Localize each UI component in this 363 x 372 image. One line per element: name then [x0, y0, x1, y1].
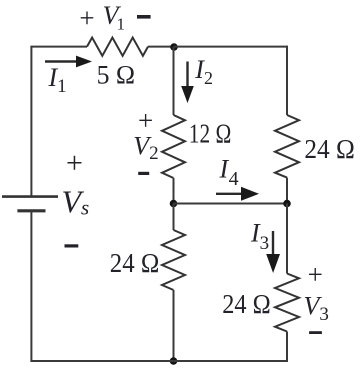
node C (middle-right junction) [283, 200, 291, 208]
wire top middle (resistor 5Ω to node A) [148, 46, 174, 48]
label + V3 - beside resistor 24Ω lower right [304, 260, 329, 335]
wire bottom horizontal [30, 360, 288, 362]
svg-text:V3: V3 [304, 292, 329, 326]
label 24 Ω value (lower right) [222, 289, 271, 319]
resistor 5Ω [87, 38, 148, 56]
svg-text:V1: V1 [103, 1, 125, 33]
label 24 Ω value (right upper) [304, 134, 355, 164]
label 12 Ω value [189, 119, 232, 149]
wire top left (corner to resistor 5Ω) [30, 46, 87, 48]
svg-text:I2: I2 [194, 55, 213, 88]
wire right vertical lowest (resistor to bottom-right corner) [286, 332, 288, 363]
svg-text:I3: I3 [250, 218, 269, 254]
wire right vertical (node C to resistor 24Ω lower right) [286, 204, 288, 274]
label 24 Ω value (middle lower) [110, 248, 160, 278]
wire middle vertical (node B to resistor 24Ω middle) [173, 204, 175, 231]
battery source Vs [2, 197, 58, 211]
wire top right (node A to top-right corner) [174, 46, 287, 48]
svg-text:12 Ω: 12 Ω [189, 119, 232, 149]
label I4 [219, 154, 239, 190]
svg-text:24 Ω: 24 Ω [304, 134, 355, 164]
svg-text:5 Ω: 5 Ω [97, 60, 136, 90]
wire middle vertical upper (node A to resistor 12Ω) [173, 47, 175, 115]
wire middle vertical lower (resistor 24Ω to node D) [173, 290, 175, 361]
svg-text:24 Ω: 24 Ω [110, 248, 160, 278]
svg-text:24 Ω: 24 Ω [222, 289, 271, 319]
current arrow I2 [181, 62, 194, 104]
resistor 24Ω (right upper) [275, 115, 299, 178]
svg-text:I1: I1 [48, 63, 67, 97]
node D (bottom junction) [170, 357, 178, 365]
resistor 12Ω [162, 115, 185, 178]
svg-text:+: + [79, 3, 94, 33]
node A (top junction) [170, 43, 178, 51]
label + V2 - beside resistor 12Ω [133, 105, 158, 175]
wire middle vertical (resistor 12Ω to node B) [173, 178, 175, 204]
wire left vertical (bottom segment, Vs - terminal to bottom-left corner) [30, 211, 32, 361]
wire right vertical middle (resistor 24Ω to node C) [286, 178, 288, 204]
label 5 Ω value [97, 60, 136, 90]
current arrow I3 [266, 231, 280, 273]
svg-text:+: + [308, 260, 323, 290]
wire left vertical (top segment, Vs + terminal to top-left corner) [30, 47, 32, 197]
label + Vs - beside battery [62, 146, 90, 247]
svg-text:Vs: Vs [62, 184, 90, 220]
current arrow I1 [45, 56, 92, 68]
label I3 [250, 218, 269, 254]
wire middle horizontal (node B to node C) [174, 203, 288, 205]
svg-text:+: + [66, 146, 83, 179]
label + V1 - above resistor 5Ω [79, 1, 150, 33]
svg-text:V2: V2 [133, 132, 158, 164]
svg-text:I4: I4 [219, 154, 239, 190]
resistor 24Ω (lower right) [275, 274, 299, 332]
current arrow I4 [216, 187, 259, 201]
resistor 24Ω (middle lower) [162, 230, 185, 290]
label I2 [194, 55, 213, 88]
wire right vertical upper (corner down to resistor 24Ω right) [286, 46, 288, 115]
node B (middle-left junction) [170, 200, 178, 208]
label I1 [48, 63, 67, 97]
